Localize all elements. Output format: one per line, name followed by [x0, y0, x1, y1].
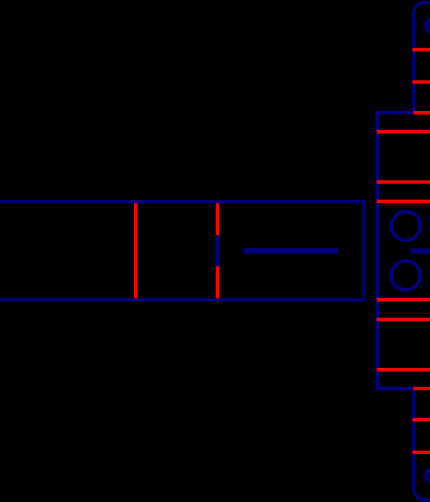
keyway centre mark (blue dash over red line 2) [216, 235, 220, 266]
plate hole bottom (partial) [426, 470, 430, 482]
axis short dash right [411, 249, 430, 254]
red stub y369 [377, 368, 430, 372]
red stub y201 [377, 200, 430, 204]
plate outline bottom [414, 387, 430, 500]
top step connector [375, 111, 415, 114]
red stub y82 [412, 80, 430, 84]
flange hole lower [391, 261, 420, 290]
red stub y182 [377, 180, 430, 184]
red stub y131 [377, 130, 430, 134]
bottom step connector [375, 387, 415, 390]
red section line 1 [134, 203, 137, 298]
shaft body outline [0, 202, 364, 300]
red stub y112 [413, 111, 430, 115]
red stub y49 [412, 48, 430, 52]
red stub y388 [413, 387, 430, 391]
plate outline top [414, 3, 430, 115]
flange hole upper [391, 211, 420, 240]
flange face line [375, 111, 379, 390]
red stub y319 [377, 318, 430, 322]
red stub y452 [412, 450, 430, 454]
plate hole top (partial) [426, 20, 430, 32]
red stub y419 [412, 418, 430, 422]
red section line 2 [216, 203, 219, 298]
red stub y299 [377, 298, 430, 302]
keyway long dash [243, 248, 338, 253]
